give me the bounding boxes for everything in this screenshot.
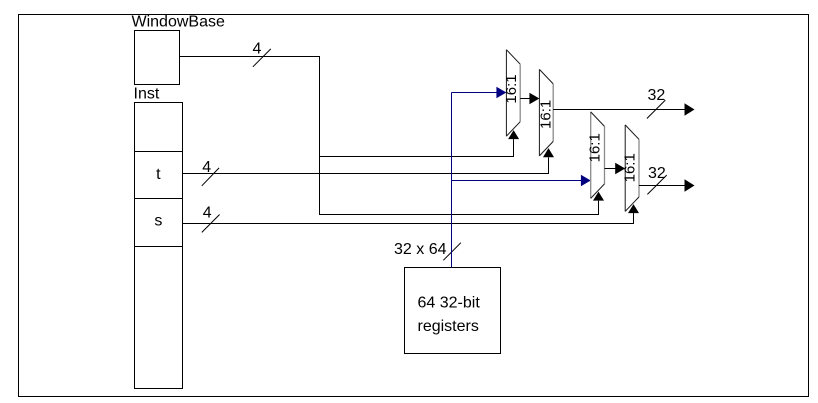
register WindowBase [135,31,180,85]
svg-text:32: 32 [648,87,666,104]
blue bus to mux1 data input [452,92,498,94]
arrowhead into mux4 [615,163,625,175]
bus slash 32x64 [443,243,461,261]
field divider 2 [135,198,183,200]
svg-text:registers: registers [418,318,479,335]
mux U1 select arrow [508,130,519,139]
mux U1 body [506,50,520,137]
svg-text:WindowBase: WindowBase [132,14,225,31]
wire s select (to mux4 select) [183,213,634,223]
wire branch to mux1 select [320,139,514,156]
svg-text:32: 32 [648,165,666,182]
svg-text:t: t [156,166,161,183]
register Inst [135,103,183,389]
field divider 3 [135,246,183,248]
bus slash WindowBase [253,49,271,67]
bus slash output bottom [647,175,666,194]
blue arrowhead into mux3 [581,175,591,187]
svg-text:4: 4 [203,205,212,222]
wire WindowBase select (to mux1 and mux3 selects) [180,57,599,215]
bus slash output top [647,100,665,118]
svg-text:16:1: 16:1 [503,74,520,103]
mux U2 body [539,69,553,155]
mux U2 select arrow [543,148,554,157]
wire mux4 output [639,185,685,187]
svg-text:64 32-bit: 64 32-bit [418,295,481,312]
blue bus to mux3 data input [452,180,582,182]
svg-text:16:1: 16:1 [587,133,604,162]
registers box [405,268,501,354]
svg-text:16:1: 16:1 [538,100,555,129]
mux U3 select arrow [593,192,604,201]
mux U4 body [625,125,639,211]
svg-text:16:1: 16:1 [622,153,639,182]
field divider 1 [135,151,183,153]
mux U4 select arrow [628,204,639,213]
blue bus vertical from registers [451,93,453,268]
svg-text:Inst: Inst [134,86,160,103]
wire mux3 to mux4 [605,168,616,170]
svg-text:4: 4 [202,159,211,176]
blue arrowhead into mux1 [496,87,506,99]
arrowhead into mux2 [529,93,539,105]
output arrowhead bottom [685,179,695,191]
output arrowhead top [685,103,695,115]
bus slash s [202,215,220,233]
wire t select (to mux2 select) [183,157,549,173]
bus slash t [202,168,219,186]
svg-text:4: 4 [253,41,262,58]
wire mux2 output [553,109,685,111]
mux U3 body [591,112,605,198]
wire mux1 to mux2 [520,98,530,100]
svg-text:s: s [154,213,162,230]
svg-text:32 x 64: 32 x 64 [394,241,447,258]
